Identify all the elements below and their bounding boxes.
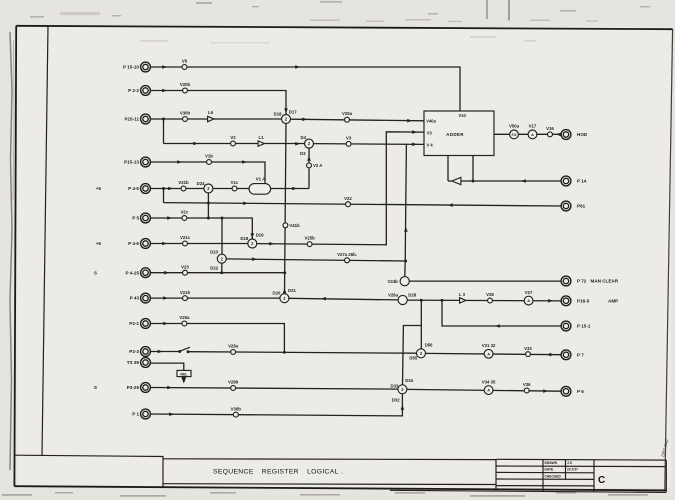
svg-text:P 7: P 7 — [577, 352, 584, 357]
terminal P43 — [130, 293, 151, 303]
gate D55/D56 junction — [409, 343, 433, 361]
terminal P15-10 — [123, 62, 150, 72]
svg-text:V30b: V30b — [231, 406, 242, 411]
svg-text:D20: D20 — [273, 291, 281, 296]
svg-text:D33: D33 — [391, 383, 399, 388]
svg-text:D56: D56 — [425, 343, 433, 348]
svg-text:DRAWN: DRAWN — [545, 461, 558, 465]
svg-text:P 5: P 5 — [132, 216, 139, 221]
scan noise bottom edge — [2, 492, 648, 497]
svg-text:D4: D4 — [301, 135, 307, 140]
svg-text:L 3: L 3 — [459, 292, 466, 297]
wire row6 P4-5 through V1A — [150, 188, 309, 190]
svg-text:P15-13: P15-13 — [124, 160, 139, 165]
wire D33 output to P6 — [407, 389, 562, 391]
svg-text:P61: P61 — [577, 204, 586, 209]
svg-text:V27: V27 — [525, 290, 533, 295]
wire row14 P1 up to D32 — [150, 394, 402, 416]
svg-text:V21c: V21c — [180, 235, 191, 240]
wire row9 P4-25 to bus — [150, 272, 284, 274]
svg-text:S: S — [94, 270, 97, 275]
svg-text:P 1: P 1 — [132, 412, 139, 417]
valve V2 — [230, 135, 236, 146]
valve V30b row14 — [231, 406, 242, 417]
svg-text:V1 A: V1 A — [256, 177, 265, 182]
scan noise top edge — [30, 1, 650, 44]
wire V24b to P72 — [409, 280, 561, 282]
svg-text:V2 A: V2 A — [313, 163, 322, 168]
terminal P2-3 — [129, 347, 150, 357]
valve V30b — [180, 111, 191, 122]
svg-text:J.S: J.S — [567, 461, 573, 465]
wire row4 to adder V4 — [164, 143, 425, 146]
wire jog to D34 riser — [403, 326, 422, 386]
wire V22 line to P61 — [164, 203, 562, 206]
svg-text:D22: D22 — [210, 265, 218, 270]
gate D4/D3 junction — [300, 135, 314, 156]
drawing frame border — [16, 26, 672, 29]
terminal P3-25 — [94, 383, 150, 393]
svg-text:CHECKED: CHECKED — [545, 474, 562, 478]
svg-text:+5: +5 — [96, 241, 102, 246]
svg-text:DATE: DATE — [545, 468, 555, 472]
svg-text:L6: L6 — [208, 110, 214, 115]
adder box — [424, 111, 494, 156]
wire row2 P2-2 to D17 — [150, 91, 286, 115]
svg-text:V21b: V21b — [178, 180, 189, 185]
svg-text:L1: L1 — [258, 135, 264, 140]
valve V20b — [180, 82, 191, 93]
valve V33 — [524, 346, 532, 357]
valve V1A oval — [249, 177, 271, 195]
valve V21b — [178, 180, 189, 191]
svg-text:ADDER: ADDER — [446, 132, 464, 137]
crease ticks top — [486, 0, 488, 19]
svg-text:V3: V3 — [346, 136, 352, 141]
svg-text:V28: V28 — [486, 292, 494, 297]
wire P14 line — [461, 180, 561, 182]
wire riser D56 from V26a line — [420, 300, 422, 349]
svg-text:P2-1: P2-1 — [129, 321, 139, 326]
wire riser P15-1 — [442, 300, 561, 326]
switch blade — [180, 347, 190, 351]
terminal P15-1 — [561, 321, 591, 331]
svg-text:SEQUENCE REGISTER LOGICAL .: SEQUENCE REGISTER LOGICAL . — [213, 468, 343, 475]
amplifier V31 32 — [482, 343, 496, 358]
svg-text:D24: D24 — [197, 181, 205, 186]
terminal P4-6 — [96, 239, 151, 249]
terminal P5 — [132, 213, 150, 223]
relay ground arrow — [183, 377, 185, 379]
wire riser adder V4 down to V24b — [405, 144, 407, 276]
terminal P2-1 — [129, 319, 150, 329]
terminal P16-5 — [561, 296, 618, 306]
valve V24b junction — [388, 277, 410, 286]
wire row10 P43 to D21 and V26a — [150, 298, 398, 300]
terminal P4-25 — [94, 268, 150, 278]
valve V25b — [304, 236, 315, 247]
svg-text:C: C — [598, 475, 605, 486]
wire D24 lower vertical — [207, 193, 209, 218]
wire row8 P4-6 to V3 riser and adder V3 — [150, 132, 424, 245]
valve V16 — [546, 126, 554, 137]
terminal P61 — [561, 201, 586, 211]
inductor L3 — [459, 292, 466, 303]
terminal HOD — [561, 130, 588, 140]
svg-text:V21b: V21b — [180, 290, 191, 295]
terminal P1 — [132, 409, 150, 419]
svg-text:V2: V2 — [230, 135, 236, 140]
svg-text:P 4-5: P 4-5 — [128, 186, 139, 191]
svg-text:V23: V23 — [181, 264, 189, 269]
valve V2c — [181, 210, 189, 221]
svg-text:V1c: V1c — [231, 180, 239, 185]
wire row11 P2-1 down to P2-3 line — [150, 324, 284, 353]
svg-text:D19: D19 — [256, 233, 264, 238]
svg-text:D17: D17 — [289, 109, 297, 114]
svg-text:D18: D18 — [240, 236, 248, 241]
svg-text:P 14: P 14 — [577, 179, 587, 184]
svg-text:P2-3: P2-3 — [129, 349, 139, 354]
svg-text:V3: V3 — [427, 131, 433, 136]
valve V3 — [346, 136, 352, 147]
svg-text:D34: D34 — [405, 378, 413, 383]
valve V26a / D28 junction — [388, 292, 417, 304]
svg-text:V40a: V40a — [426, 119, 436, 124]
amplifier V50a — [509, 124, 520, 139]
svg-text:V22: V22 — [344, 196, 352, 201]
terminal P6 — [561, 386, 584, 396]
svg-text:P3-25: P3-25 — [127, 385, 140, 390]
valve V27a 26b — [337, 252, 357, 263]
svg-text:V33: V33 — [524, 346, 532, 351]
valve V22 — [344, 196, 352, 207]
wire D22 lower vertical — [221, 263, 223, 273]
amplifier V27 — [524, 290, 533, 305]
wire row1 P15-10 to adder top — [150, 67, 460, 111]
inductor L1 — [258, 135, 264, 146]
gate D20/D21 junction — [273, 288, 297, 303]
amplifier V17 — [528, 124, 537, 139]
valve V29a — [179, 315, 190, 326]
terminal P2-2 — [128, 86, 150, 96]
terminal P4-5 — [96, 184, 151, 194]
valve V6 — [182, 59, 188, 70]
wire row12 P2-3 to D55 — [150, 352, 417, 354]
svg-text:V36: V36 — [523, 382, 531, 387]
svg-text:P 72: P 72 — [577, 279, 587, 284]
svg-text:P 6: P 6 — [577, 389, 584, 394]
wire D23 upper vertical — [221, 218, 223, 255]
wire adder bottom verticals — [448, 156, 473, 182]
svg-text:P 15-10: P 15-10 — [123, 65, 139, 70]
svg-text:V28a: V28a — [228, 344, 239, 349]
svg-text:P15-11: P15-11 — [124, 117, 139, 122]
wire row13 P3-25 to D33 — [150, 388, 398, 390]
wire branch P4-5 down to V22 line — [163, 189, 165, 203]
gate D18/D19 junction — [240, 233, 264, 248]
title box — [163, 459, 496, 490]
wire D23 output to riser — [226, 259, 406, 261]
svg-text:MAN CLEAR: MAN CLEAR — [591, 279, 619, 284]
valve V21c — [180, 235, 191, 246]
svg-text:V34 35: V34 35 — [482, 379, 496, 384]
title block texts — [545, 461, 579, 478]
terminal TS39 — [127, 358, 151, 368]
svg-text:V30b: V30b — [180, 111, 191, 116]
svg-text:V26a: V26a — [388, 292, 399, 297]
gate D33/D34/D32 junction — [391, 378, 414, 402]
terminal P15-11 — [124, 114, 150, 124]
wire D55 output to P7 — [425, 353, 561, 354]
svg-text:P 15-1: P 15-1 — [577, 324, 591, 329]
svg-text:20.5.57: 20.5.57 — [567, 468, 578, 472]
valve V23 — [181, 264, 189, 275]
valve V29b — [228, 380, 239, 391]
svg-text:V 4: V 4 — [427, 142, 434, 147]
svg-text:P 4-6: P 4-6 — [128, 241, 139, 246]
svg-text:V1b: V1b — [205, 154, 213, 159]
svg-text:D3: D3 — [300, 151, 306, 156]
title strip left box — [15, 455, 163, 487]
gate D18/D17 junction — [274, 109, 298, 123]
svg-text:HOD: HOD — [577, 132, 588, 137]
svg-text:AMP: AMP — [608, 298, 618, 303]
svg-text:+5: +5 — [96, 186, 102, 191]
valve V28a — [228, 344, 239, 355]
svg-text:D28: D28 — [408, 292, 416, 297]
wire row3 P15-11 to adder V40a — [150, 119, 424, 121]
svg-text:V20b: V20b — [180, 82, 191, 87]
svg-text:P 43: P 43 — [130, 296, 140, 301]
svg-text:P 2-2: P 2-2 — [128, 88, 139, 93]
svg-text:REL: REL — [180, 373, 188, 377]
wire bus vertical row2 to D21 — [285, 123, 287, 294]
svg-text:S: S — [94, 385, 97, 390]
wire row7 P5 to D19 — [150, 218, 252, 239]
svg-text:V2c: V2c — [181, 210, 189, 215]
valve V41b — [283, 223, 300, 228]
svg-text:D21: D21 — [288, 288, 296, 293]
svg-text:V16: V16 — [546, 126, 554, 131]
svg-text:V27a 26b.: V27a 26b. — [337, 252, 357, 257]
valve V1b — [205, 154, 213, 165]
svg-text:V17: V17 — [529, 124, 537, 129]
valve V28 — [486, 292, 494, 303]
terminal P15-13 — [124, 157, 150, 167]
wire V2A vertical — [308, 148, 310, 189]
wire adder output to HOD — [494, 133, 561, 135]
svg-text:V50a: V50a — [509, 124, 520, 129]
gate D23/D22 junction — [210, 250, 226, 271]
valve V36 — [523, 382, 531, 393]
svg-text:V29a: V29a — [179, 315, 190, 320]
inner margin line — [42, 26, 48, 455]
valve V2A — [307, 163, 323, 168]
svg-text:V6: V6 — [182, 59, 188, 64]
svg-text:V29b: V29b — [228, 380, 239, 385]
relay REL box — [177, 370, 191, 376]
scan noise left edge — [10, 32, 12, 470]
svg-text:D55: D55 — [409, 355, 417, 360]
svg-text:V25b: V25b — [304, 236, 315, 241]
wire V26a output to P16-5 — [407, 299, 561, 302]
svg-text:V24b: V24b — [388, 279, 399, 284]
wire TS39 to REL — [150, 363, 183, 370]
svg-text:F.A: F.A — [512, 133, 517, 137]
svg-text:D18: D18 — [274, 112, 282, 117]
title block table — [390, 459, 666, 492]
svg-text:V31 32: V31 32 — [482, 343, 496, 348]
svg-text:P16-5: P16-5 — [577, 298, 590, 303]
svg-text:D23: D23 — [210, 250, 218, 255]
valve V21b row10 — [180, 290, 191, 301]
terminal P14 — [561, 176, 587, 186]
terminal P7 — [561, 350, 584, 360]
amplifier V34 35 — [482, 379, 496, 394]
svg-text:V10: V10 — [459, 113, 467, 118]
wire row5 P15-13 to V1A — [150, 162, 265, 184]
valve V1c — [231, 180, 239, 191]
inductor L6 — [208, 110, 214, 122]
svg-text:D32: D32 — [392, 397, 400, 402]
svg-text:P 4-25: P 4-25 — [126, 270, 140, 275]
svg-text:TS 39: TS 39 — [127, 360, 140, 365]
gate D24 junction — [197, 181, 213, 193]
svg-text:V41b: V41b — [289, 223, 300, 228]
svg-text:V25a: V25a — [342, 111, 353, 116]
valve V25a — [342, 111, 353, 122]
inverter triangle — [448, 180, 452, 182]
terminal P72 — [561, 276, 619, 286]
wire branch row3 down to row4 — [163, 119, 165, 144]
